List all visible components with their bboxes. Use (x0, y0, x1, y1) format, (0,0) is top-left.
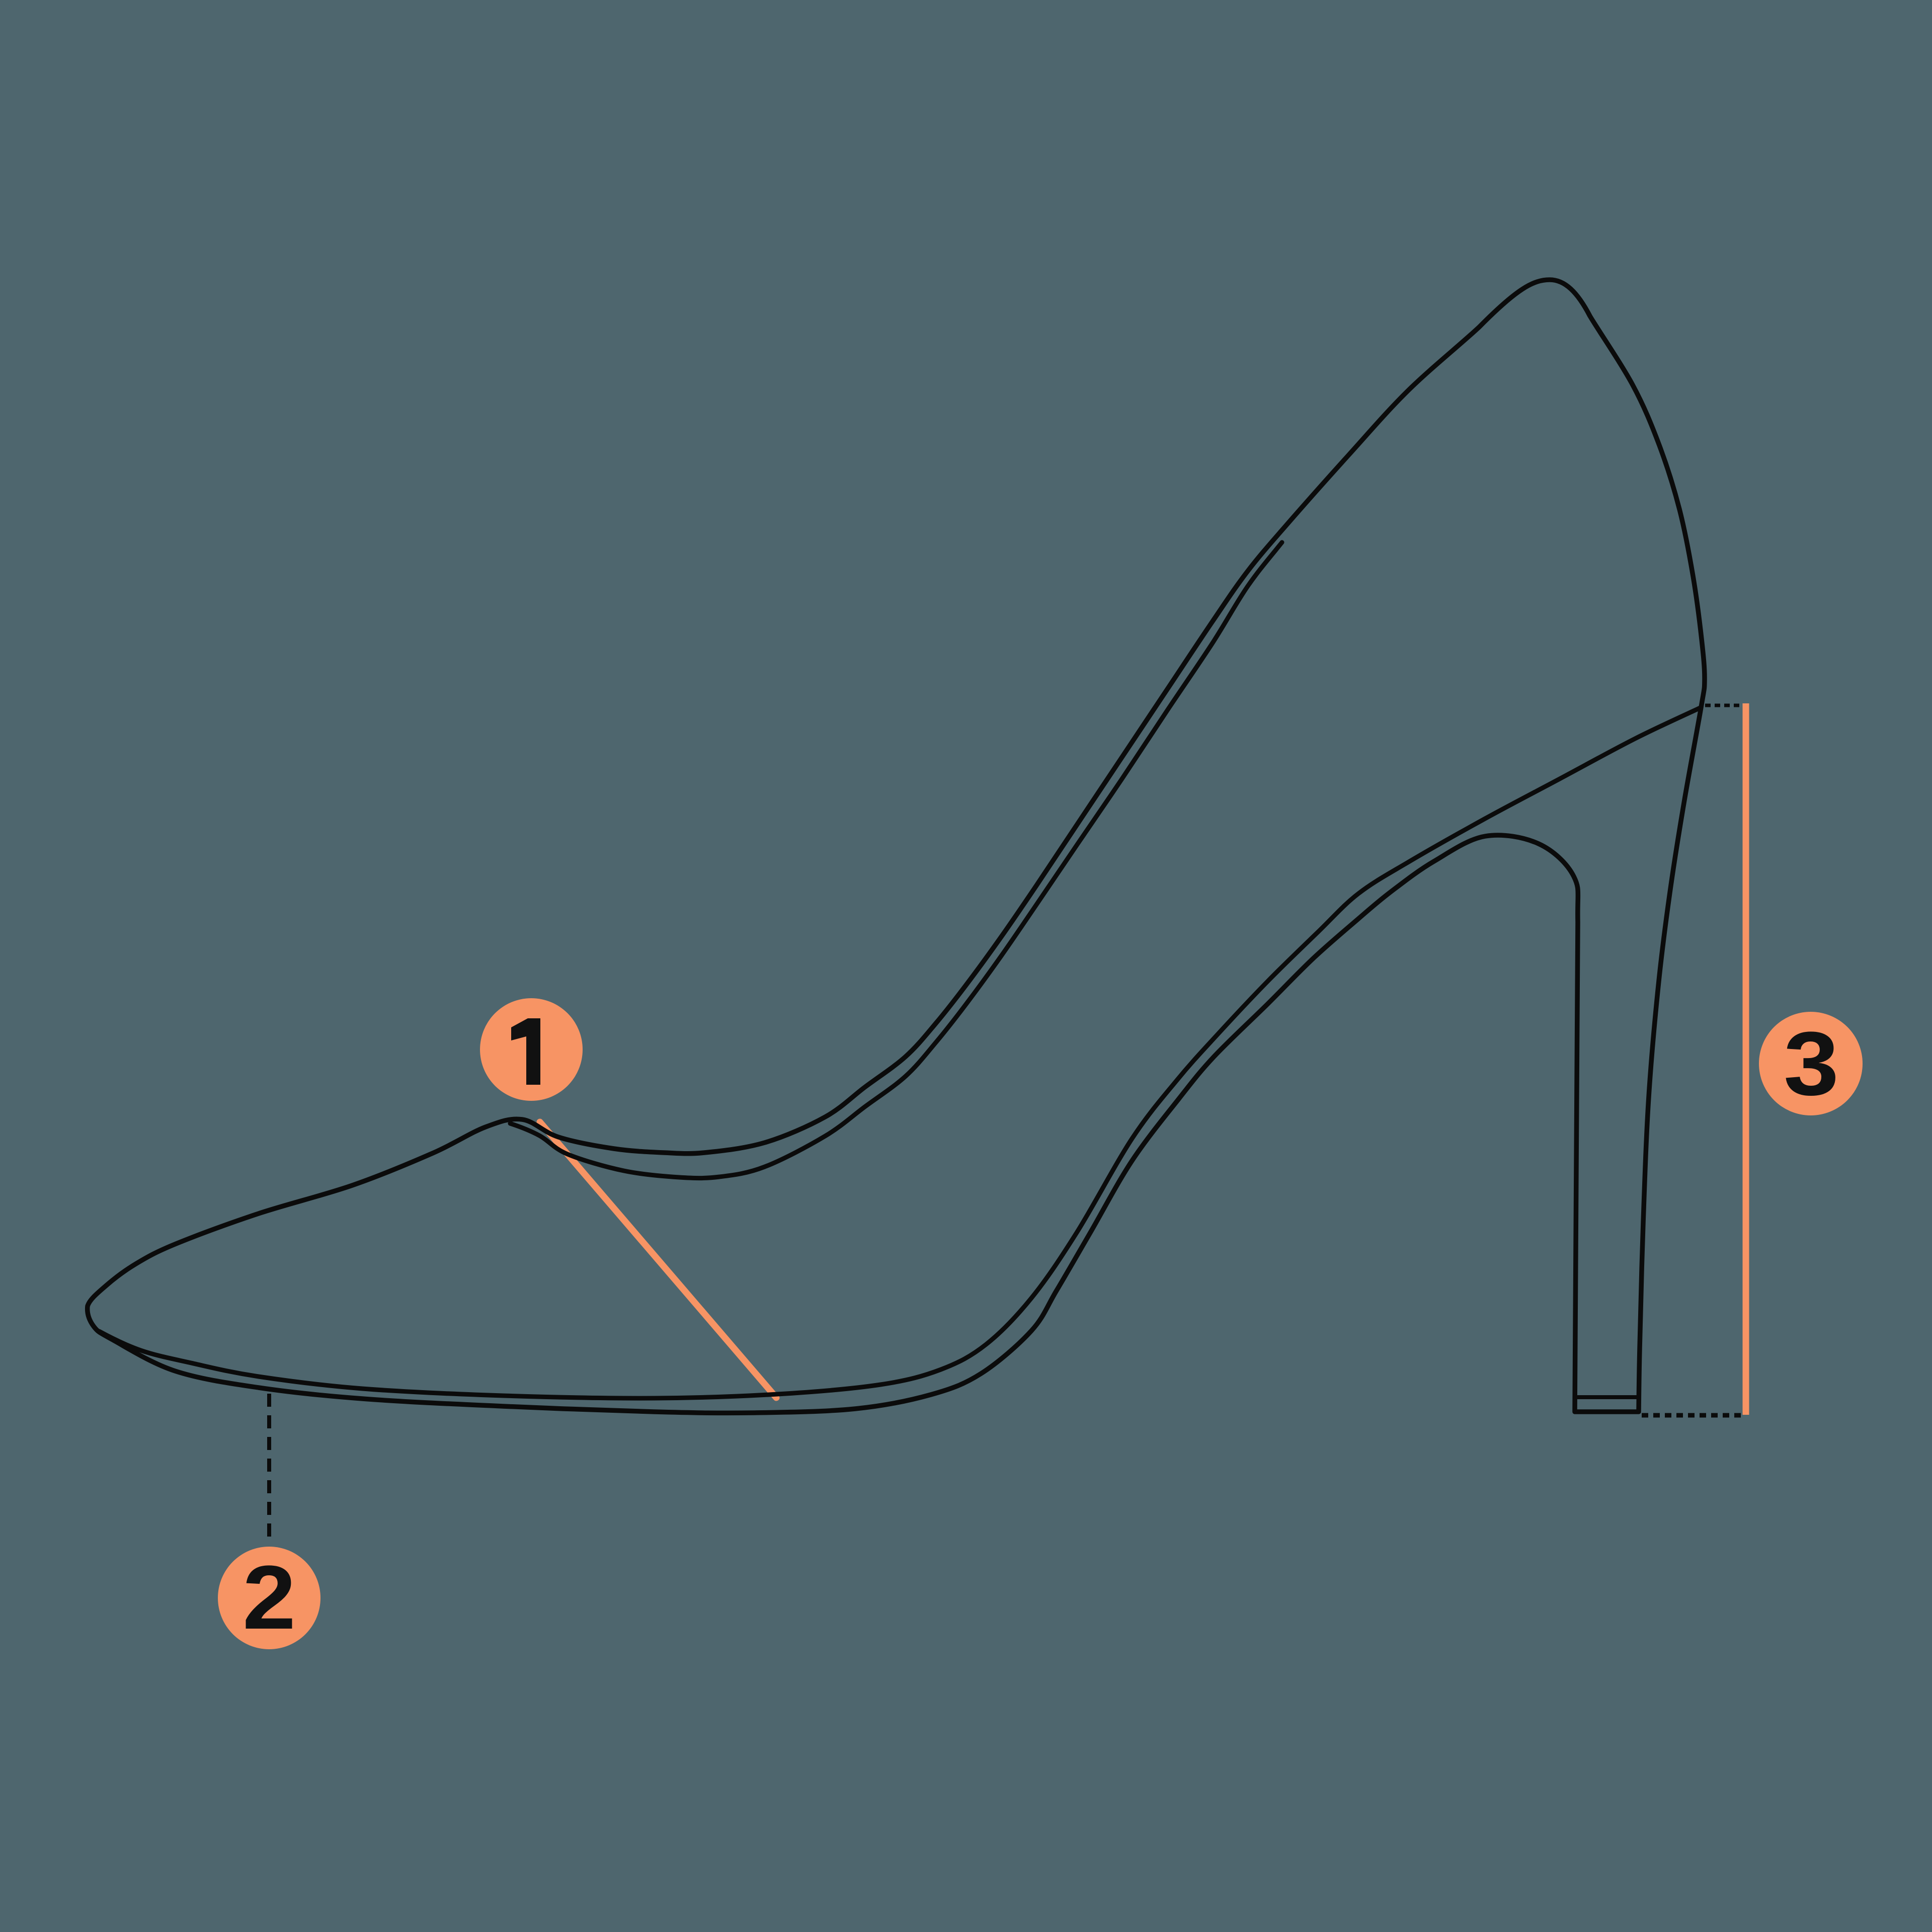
orange diagonal: vamp measure (540, 1122, 776, 1398)
svg-text:2: 2 (243, 1547, 296, 1648)
svg-text:3: 3 (1784, 1013, 1839, 1114)
sole feather line (99, 707, 1701, 1398)
leader dotted: heel top (1705, 704, 1742, 707)
leader dashed: sole thickness (to circle 2) (267, 1394, 271, 1541)
circle 2 (218, 1547, 320, 1649)
circle 1 (480, 998, 583, 1101)
leader dotted: heel bottom (1642, 1413, 1743, 1418)
topline inner edge (510, 542, 1282, 1178)
digit 1 (511, 1018, 540, 1085)
circle 3 (1759, 1012, 1863, 1115)
orange ruler: heel height (1743, 703, 1749, 1415)
heel cap seam (1578, 1395, 1637, 1399)
shoe outer outline (88, 280, 1705, 1413)
